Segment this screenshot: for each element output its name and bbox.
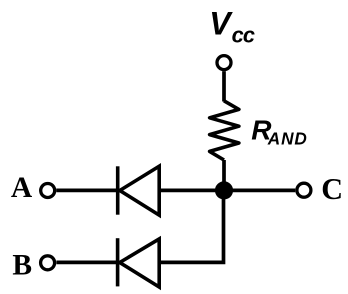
- terminal A (open circle): [41, 184, 55, 198]
- svg-text:A: A: [11, 172, 33, 204]
- terminal C (open circle): [297, 183, 311, 197]
- wire Vcc terminal to resistor: [222, 71, 226, 101]
- diode D1 cathode bar: [116, 166, 120, 214]
- wire B terminal to diode D2: [56, 261, 117, 265]
- terminal Vcc (open circle): [217, 56, 231, 70]
- wire diode D1 to node and to terminal C: [158, 189, 295, 193]
- junction node (filled dot): [215, 181, 233, 199]
- diode D1 triangle: [120, 166, 159, 215]
- svg-text:C: C: [321, 172, 343, 206]
- label R_AND: [251, 115, 308, 149]
- diode D2 cathode bar: [116, 238, 120, 286]
- wire resistor to junction: [222, 160, 226, 190]
- resistor R_AND: [210, 101, 239, 160]
- svg-text:AND: AND: [267, 128, 308, 148]
- svg-text:B: B: [12, 250, 32, 282]
- wire A terminal to diode D1: [56, 189, 117, 193]
- svg-text:cc: cc: [232, 22, 255, 47]
- svg-text:V: V: [209, 5, 233, 41]
- wire diode D2 to junction node: [158, 190, 223, 262]
- label Vcc: [209, 5, 255, 47]
- terminal B (open circle): [41, 256, 55, 270]
- diode D2 triangle: [120, 239, 160, 287]
